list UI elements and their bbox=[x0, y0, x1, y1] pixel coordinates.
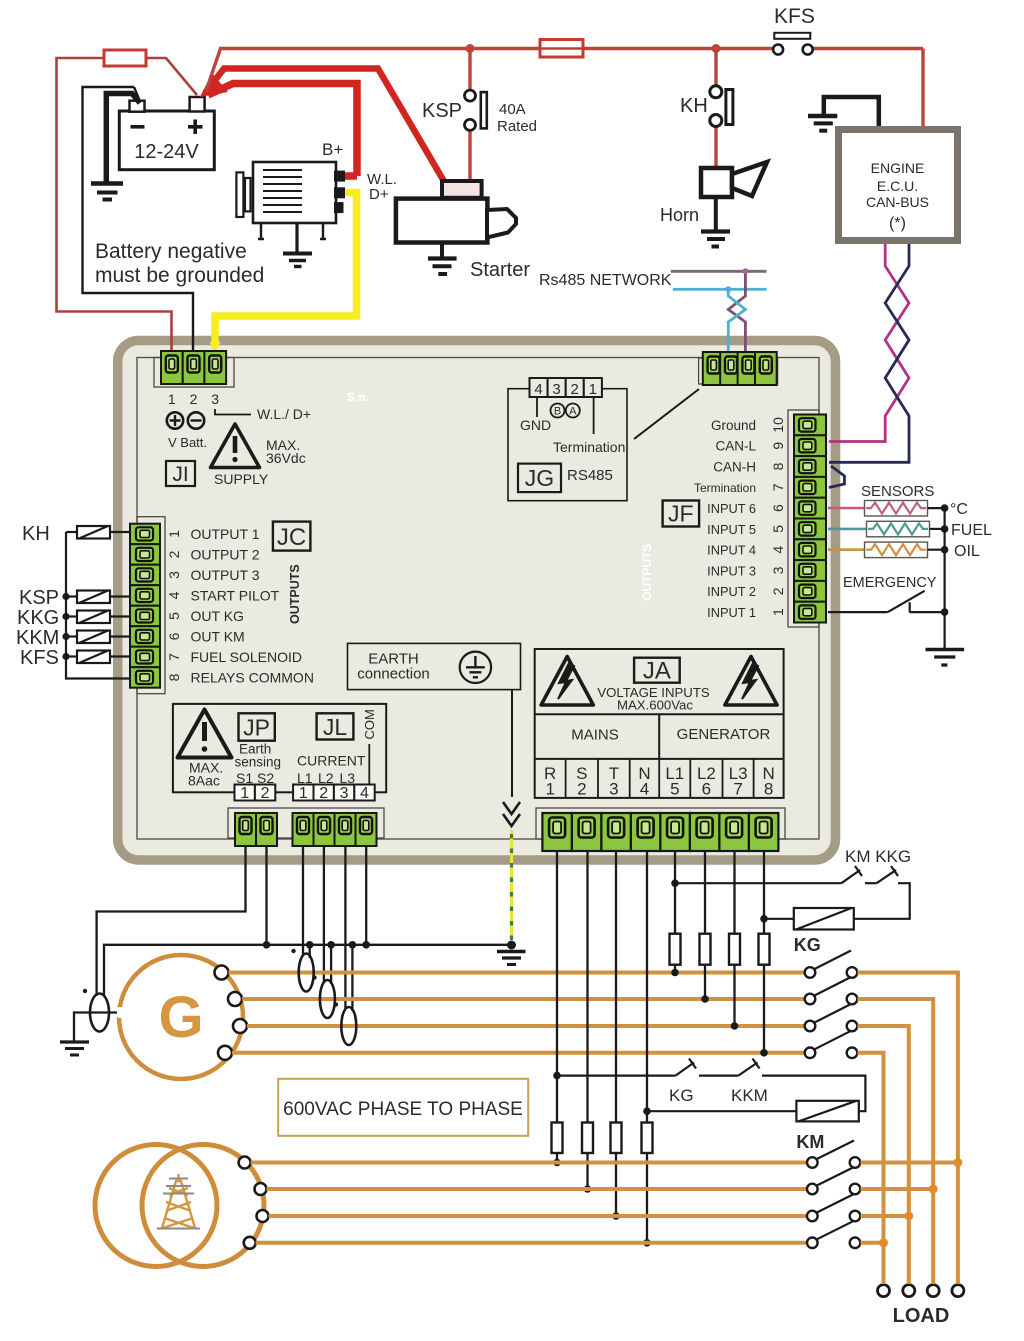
output labels bbox=[191, 526, 314, 686]
fuse mains S2 bbox=[582, 1123, 593, 1154]
svg-text:600VAC PHASE TO PHASE: 600VAC PHASE TO PHASE bbox=[283, 1099, 523, 1120]
svg-text:S.n.: S.n. bbox=[347, 390, 369, 404]
wire S2 pin down to common bbox=[265, 846, 267, 945]
wire JA R1 down bbox=[556, 851, 558, 1123]
svg-text:MAINS: MAINS bbox=[571, 727, 619, 744]
contactor KM contacts bbox=[807, 1157, 860, 1248]
JP JL section box bbox=[173, 704, 386, 792]
svg-text:JG: JG bbox=[525, 465, 554, 491]
horn bbox=[660, 162, 767, 247]
svg-text:9: 9 bbox=[770, 442, 786, 450]
coil KM bbox=[796, 1101, 858, 1122]
transformer tower icon bbox=[162, 1174, 195, 1228]
svg-text:4: 4 bbox=[640, 780, 649, 799]
earth wire from EARTH box bbox=[511, 690, 513, 797]
fuse F2 (40A) bbox=[540, 40, 583, 58]
ground symbol (battery) bbox=[91, 184, 123, 200]
wire: thin dark red battery + to fuse to controller pin 1 bbox=[57, 58, 198, 352]
JA cell dividers bbox=[566, 759, 754, 798]
svg-text:KKG: KKG bbox=[17, 607, 59, 629]
sensor temp wire bbox=[828, 507, 865, 510]
relay KH contact box bbox=[77, 526, 110, 539]
svg-text:B: B bbox=[554, 406, 561, 418]
ground symbol (generator) bbox=[60, 1042, 89, 1055]
svg-text:Battery negative: Battery negative bbox=[95, 240, 247, 263]
svg-text:Rated: Rated bbox=[497, 118, 537, 135]
G star point bbox=[115, 1007, 126, 1018]
mains phase wire S bbox=[267, 1187, 809, 1191]
wire L1 CT return bbox=[309, 945, 311, 958]
rotated numbers 1-8 bbox=[166, 530, 182, 682]
switch KH bbox=[680, 86, 733, 127]
svg-text:KFS: KFS bbox=[774, 5, 815, 28]
pointer line JG to connector bbox=[634, 389, 699, 439]
terminal block JF frame (right) bbox=[788, 410, 819, 627]
wire JA S2 down bbox=[586, 851, 588, 1123]
svg-text:KKM: KKM bbox=[731, 1086, 768, 1105]
wire: thin red top line battery + to KFS to ECU bbox=[206, 49, 923, 128]
svg-text:must be grounded: must be grounded bbox=[95, 264, 264, 287]
resistor temp bbox=[865, 501, 928, 517]
LOAD terminals bbox=[878, 1285, 964, 1297]
svg-text:1: 1 bbox=[589, 381, 597, 398]
svg-text:4: 4 bbox=[770, 546, 786, 554]
CT L3 bbox=[341, 1007, 356, 1045]
fuse mains R1 bbox=[552, 1123, 563, 1154]
alternator bbox=[236, 140, 397, 267]
wire L1 CT lead bbox=[302, 846, 304, 956]
svg-text:4: 4 bbox=[534, 381, 542, 398]
svg-text:G: G bbox=[158, 985, 203, 1050]
svg-text:INPUT 2: INPUT 2 bbox=[707, 584, 756, 599]
terminal block JA frame bbox=[536, 808, 785, 839]
wire to KG coil bbox=[854, 883, 910, 919]
svg-text:INPUT 4: INPUT 4 bbox=[707, 543, 756, 558]
svg-text:KFS: KFS bbox=[20, 647, 59, 669]
svg-text:8: 8 bbox=[764, 780, 773, 799]
svg-text:6: 6 bbox=[166, 632, 182, 640]
alternator terminals B+ W.L. D+ bbox=[334, 171, 345, 182]
current warning triangle bbox=[178, 710, 232, 758]
generator G bbox=[119, 955, 243, 1079]
hazard triangle right bbox=[725, 657, 777, 706]
svg-text:KH: KH bbox=[22, 523, 50, 545]
svg-text:OIL: OIL bbox=[954, 543, 980, 560]
svg-text:2: 2 bbox=[261, 785, 270, 802]
switch KG aux bbox=[676, 1063, 695, 1076]
generator phase wire 1 bbox=[229, 971, 807, 975]
Rs485 line A (purple) bbox=[671, 270, 767, 273]
svg-text:10: 10 bbox=[770, 417, 786, 433]
W.L./D+ pointer bbox=[215, 409, 251, 415]
svg-text:JC: JC bbox=[277, 524, 306, 551]
terminal block JP/JL frame bbox=[228, 808, 384, 838]
plus minus symbols bbox=[167, 412, 204, 428]
wire JA T3 down bbox=[615, 851, 617, 1123]
svg-text:CURRENT: CURRENT bbox=[297, 753, 366, 769]
svg-text:4: 4 bbox=[166, 591, 182, 599]
CAN twisted pair: navy CAN-H bbox=[829, 244, 909, 462]
terminal block JF pins 10-1 bbox=[794, 415, 826, 623]
wire JA L1 down bbox=[674, 851, 676, 934]
wire JA N4 down bbox=[646, 851, 648, 1123]
terminal block JI frame bbox=[154, 358, 234, 388]
svg-text:2: 2 bbox=[319, 785, 328, 802]
svg-text:7: 7 bbox=[770, 483, 786, 491]
battery 12-24V bbox=[119, 97, 214, 170]
svg-text:OUTPUT 1: OUTPUT 1 bbox=[191, 526, 260, 542]
alternator pulley bbox=[236, 172, 243, 217]
svg-text:INPUT 3: INPUT 3 bbox=[707, 563, 756, 578]
wire G star to ground bbox=[74, 1013, 117, 1042]
svg-text:JL: JL bbox=[323, 714, 348, 740]
svg-text:SENSORS: SENSORS bbox=[861, 483, 934, 500]
wire: ECU ground bbox=[824, 97, 879, 126]
svg-text:2: 2 bbox=[577, 780, 586, 799]
svg-text:OUT KG: OUT KG bbox=[191, 608, 244, 624]
GND stub bbox=[536, 397, 538, 417]
svg-text:1: 1 bbox=[770, 608, 786, 616]
svg-text:FUEL SOLENOID: FUEL SOLENOID bbox=[191, 649, 303, 665]
red arrowhead at battery + bbox=[200, 73, 228, 97]
wire: red KSP branch bbox=[468, 49, 471, 183]
B A circles bbox=[551, 404, 565, 418]
generator phase wire 2 bbox=[242, 997, 806, 1001]
wire stubs to LOAD bbox=[884, 1280, 958, 1284]
svg-text:KG: KG bbox=[669, 1086, 694, 1105]
svg-text:1: 1 bbox=[168, 391, 176, 407]
G terminals bbox=[215, 966, 248, 1060]
JP label box bbox=[239, 713, 275, 740]
svg-text:EMERGENCY: EMERGENCY bbox=[843, 575, 937, 591]
wire S1 pin down-left to CT bbox=[97, 846, 246, 996]
svg-text:INPUT 6: INPUT 6 bbox=[707, 501, 756, 516]
svg-text:OUTPUTS: OUTPUTS bbox=[640, 544, 654, 601]
svg-text:3: 3 bbox=[770, 566, 786, 574]
JG label box bbox=[518, 464, 561, 493]
terminal block JC pins 1-8 bbox=[130, 524, 160, 688]
CT L2 bbox=[320, 980, 335, 1018]
mains after KM to bus bbox=[861, 1163, 958, 1243]
terminal block JC frame (left) bbox=[137, 517, 165, 694]
svg-text:1: 1 bbox=[545, 780, 554, 799]
sensors common vertical bbox=[943, 508, 945, 649]
alternator body bbox=[253, 162, 336, 223]
alternator fins bbox=[263, 170, 302, 212]
switch KKG aux bbox=[865, 882, 877, 884]
svg-text:7: 7 bbox=[166, 653, 182, 661]
svg-text:CAN-BUS: CAN-BUS bbox=[866, 194, 929, 210]
earth dashed wire bbox=[510, 830, 513, 940]
CT L1 bbox=[299, 954, 314, 992]
wire KM coil to N4 bbox=[647, 1110, 796, 1112]
node earth junction bbox=[507, 941, 516, 950]
svg-text:RELAYS COMMON: RELAYS COMMON bbox=[191, 670, 314, 686]
emergency switch bbox=[828, 611, 888, 613]
svg-text:36Vdc: 36Vdc bbox=[266, 450, 306, 466]
JG RS485 box bbox=[508, 378, 627, 501]
alternator legs bbox=[258, 223, 326, 239]
generator neutral wire 4 bbox=[232, 1051, 806, 1055]
svg-text:START PILOT: START PILOT bbox=[191, 588, 280, 604]
wire L2 CT return bbox=[330, 945, 332, 984]
wire JA L2 down bbox=[704, 851, 706, 934]
svg-text:Horn: Horn bbox=[660, 205, 699, 225]
wire JA N8 down bbox=[763, 851, 765, 934]
JF label box bbox=[663, 501, 700, 527]
svg-text:3: 3 bbox=[166, 571, 182, 579]
svg-text:3: 3 bbox=[340, 785, 349, 802]
svg-text:2: 2 bbox=[571, 381, 579, 398]
numbered boxes S1 S2 bbox=[235, 785, 375, 801]
wire L3 CT lead bbox=[344, 846, 346, 1009]
supply warning triangle bbox=[211, 424, 260, 468]
wire KH row bbox=[110, 531, 131, 533]
svg-text:CAN-H: CAN-H bbox=[713, 460, 756, 475]
svg-text:2: 2 bbox=[166, 550, 182, 558]
svg-text:KKM: KKM bbox=[16, 627, 59, 649]
junction node (KH tap) bbox=[712, 44, 721, 53]
JA label box bbox=[634, 658, 680, 683]
starter ground bbox=[440, 243, 444, 259]
earth double arrow bbox=[503, 802, 520, 826]
ground symbol (ECU) bbox=[808, 116, 837, 131]
wire: red KH branch bbox=[714, 49, 717, 169]
svg-text:Rs485 NETWORK: Rs485 NETWORK bbox=[539, 272, 672, 289]
Rs485 twisted drop: purple to pin 3 bbox=[728, 271, 745, 354]
svg-text:Starter: Starter bbox=[470, 259, 530, 281]
svg-text:(*): (*) bbox=[889, 215, 906, 232]
svg-text:OUT KM: OUT KM bbox=[191, 629, 245, 645]
fuse gen N bbox=[759, 934, 770, 965]
EARTH connection box bbox=[348, 643, 521, 689]
svg-text:5: 5 bbox=[670, 780, 679, 799]
svg-text:GND: GND bbox=[520, 417, 551, 433]
svg-text:Ground: Ground bbox=[711, 418, 756, 433]
svg-text:1: 1 bbox=[166, 530, 182, 538]
alternator ground bbox=[295, 223, 298, 252]
svg-text:3: 3 bbox=[211, 391, 219, 407]
wire COM pin down to common bbox=[365, 846, 367, 945]
fuse gen L2 bbox=[700, 934, 711, 965]
right block labels bbox=[694, 418, 757, 620]
fuse gen L1 bbox=[670, 934, 681, 965]
wire: thick black battery negative to ground bbox=[106, 94, 140, 183]
svg-text:5: 5 bbox=[166, 612, 182, 620]
JG header terminals 4 3 2 1 bbox=[530, 378, 602, 397]
svg-text:6: 6 bbox=[770, 504, 786, 512]
svg-text:sensing: sensing bbox=[235, 755, 282, 770]
fuse F1 (battery fuse) bbox=[104, 50, 146, 66]
orange gen phase after KG bbox=[858, 973, 958, 1281]
Termination stub bbox=[593, 397, 595, 434]
contactor KG contacts bbox=[805, 967, 858, 1058]
terminal block JI pins 1-3 bbox=[161, 351, 226, 384]
JA section box bbox=[535, 649, 784, 798]
svg-text:12-24V: 12-24V bbox=[134, 141, 199, 163]
svg-text:2: 2 bbox=[770, 587, 786, 595]
svg-text:KM: KM bbox=[796, 1132, 824, 1152]
svg-text:connection: connection bbox=[357, 666, 430, 683]
mains transformer bbox=[95, 1145, 264, 1267]
JA cell labels bbox=[544, 764, 775, 799]
svg-text:Termination: Termination bbox=[553, 439, 625, 455]
ground symbol (plant earth) bbox=[497, 952, 526, 965]
svg-text:6: 6 bbox=[702, 780, 711, 799]
wire KG coil to N bbox=[764, 918, 794, 920]
svg-text:OUTPUT 3: OUTPUT 3 bbox=[191, 567, 260, 583]
svg-text:B+: B+ bbox=[322, 140, 343, 159]
svg-text:Termination: Termination bbox=[694, 481, 756, 495]
hazard triangle left bbox=[541, 657, 593, 706]
switch KM aux bbox=[841, 870, 860, 883]
svg-text:2: 2 bbox=[190, 391, 198, 407]
wire: thick red battery + to starter bbox=[205, 69, 445, 184]
JC label box bbox=[273, 522, 311, 551]
svg-text:3: 3 bbox=[609, 780, 618, 799]
svg-text:MAX.600Vac: MAX.600Vac bbox=[617, 698, 693, 713]
starter bbox=[396, 181, 530, 281]
switch KFS bbox=[773, 5, 815, 55]
svg-text:KM KKG: KM KKG bbox=[845, 847, 911, 866]
svg-text:8: 8 bbox=[166, 673, 182, 681]
svg-text:JA: JA bbox=[643, 658, 671, 685]
sensor fuel wire bbox=[828, 528, 867, 531]
svg-text:INPUT 1: INPUT 1 bbox=[707, 605, 756, 620]
svg-text:E.C.U.: E.C.U. bbox=[877, 178, 918, 194]
wire to KM coil bbox=[762, 1076, 865, 1112]
relay KFS contact box bbox=[77, 651, 110, 664]
wire: thin black battery negative loop to controller pin 2 bbox=[83, 87, 194, 352]
COM line bbox=[368, 744, 370, 785]
svg-text:COM: COM bbox=[362, 709, 377, 739]
KG pilot line from L1 bbox=[671, 879, 679, 887]
ground symbol (sensors) bbox=[926, 650, 965, 666]
svg-text:KSP: KSP bbox=[422, 100, 462, 122]
wire: thick red battery + to B+ alternator bbox=[208, 84, 357, 177]
svg-text:1: 1 bbox=[240, 785, 249, 802]
sensor oil wire bbox=[828, 548, 865, 551]
svg-text:KSP: KSP bbox=[19, 587, 59, 609]
controller main box bbox=[118, 341, 836, 861]
svg-text:1: 1 bbox=[299, 785, 308, 802]
relay KKG contact box bbox=[77, 611, 110, 624]
transformer terminals bbox=[239, 1157, 269, 1249]
wire L2 CT lead bbox=[323, 846, 325, 982]
CT earth sensing bbox=[90, 994, 109, 1032]
svg-text:40A: 40A bbox=[499, 101, 526, 118]
svg-text:D+: D+ bbox=[369, 186, 389, 203]
svg-text:OUTPUTS: OUTPUTS bbox=[288, 564, 302, 624]
svg-text:JF: JF bbox=[668, 501, 694, 527]
junction node (KSP tap) bbox=[466, 44, 475, 53]
wire JA L3 down bbox=[733, 851, 735, 934]
terminal block JP pins bbox=[235, 813, 277, 846]
terminal block JG frame (top) bbox=[699, 358, 778, 384]
svg-text:FUEL: FUEL bbox=[951, 522, 992, 539]
svg-text:8Aac: 8Aac bbox=[188, 773, 220, 789]
svg-text:4: 4 bbox=[360, 785, 369, 802]
wire: yellow W.L./D+ to controller pin 3 bbox=[215, 193, 357, 345]
svg-text:RS485: RS485 bbox=[567, 467, 613, 484]
CAN termination jumper pin8-pin7 bbox=[829, 466, 844, 488]
svg-text:SUPPLY: SUPPLY bbox=[214, 471, 269, 487]
CAN twisted pair: magenta CAN-L bbox=[829, 244, 909, 442]
mains phase wire R bbox=[251, 1161, 808, 1165]
ENGINE ECU box bbox=[839, 130, 958, 241]
fuse mains N4 bbox=[642, 1123, 653, 1154]
mains phase wire T bbox=[269, 1214, 809, 1218]
resistor oil bbox=[865, 542, 928, 558]
svg-text:°C: °C bbox=[950, 501, 968, 518]
CT common line to earth bbox=[104, 945, 512, 996]
Rs485 twisted drop: blue to pin 2 bbox=[728, 289, 745, 354]
coil KG bbox=[794, 908, 854, 930]
svg-text:KH: KH bbox=[680, 95, 708, 117]
svg-text:LOAD: LOAD bbox=[893, 1305, 950, 1327]
generator phase wire 3 bbox=[247, 1024, 806, 1028]
terminal block JL pins bbox=[293, 813, 377, 846]
svg-text:OUTPUT 2: OUTPUT 2 bbox=[191, 547, 260, 563]
mains neutral wire bbox=[256, 1241, 808, 1245]
relay KKM contact box bbox=[77, 631, 110, 644]
svg-text:ENGINE: ENGINE bbox=[871, 160, 925, 176]
svg-text:CAN-L: CAN-L bbox=[715, 439, 756, 454]
svg-text:INPUT 5: INPUT 5 bbox=[707, 522, 756, 537]
switch KSP bbox=[422, 90, 537, 135]
wire L3 CT return bbox=[351, 945, 353, 1011]
terminal block JA pins bbox=[542, 813, 778, 851]
svg-text:7: 7 bbox=[733, 780, 742, 799]
Rs485 line B (blue) bbox=[673, 288, 767, 291]
600VAC box bbox=[278, 1079, 528, 1136]
svg-text:W.L./ D+: W.L./ D+ bbox=[257, 406, 311, 422]
JI label box bbox=[166, 461, 195, 486]
JL label box bbox=[317, 713, 354, 739]
wire relays common bus bbox=[66, 532, 131, 679]
fuse mains T3 bbox=[611, 1123, 622, 1154]
resistor fuel bbox=[867, 521, 930, 537]
svg-text:5: 5 bbox=[770, 525, 786, 533]
fuse gen L3 bbox=[729, 934, 740, 965]
rotated numbers 10-1 bbox=[770, 417, 786, 616]
svg-text:3: 3 bbox=[552, 381, 560, 398]
relay KSP contact box bbox=[77, 591, 110, 604]
svg-text:A: A bbox=[569, 406, 577, 418]
svg-text:GENERATOR: GENERATOR bbox=[677, 726, 771, 743]
svg-text:8: 8 bbox=[770, 462, 786, 470]
earth symbol circle bbox=[460, 652, 491, 683]
bus junction nodes bbox=[879, 1158, 962, 1247]
switch KKM aux bbox=[699, 1074, 738, 1076]
KM pilot line from R1 bbox=[553, 1072, 561, 1080]
terminal block JG pins (4) bbox=[703, 352, 777, 385]
svg-text:JP: JP bbox=[243, 715, 270, 741]
svg-text:KG: KG bbox=[794, 935, 821, 955]
svg-text:V Batt.: V Batt. bbox=[168, 435, 207, 450]
svg-text:JI: JI bbox=[172, 463, 188, 486]
